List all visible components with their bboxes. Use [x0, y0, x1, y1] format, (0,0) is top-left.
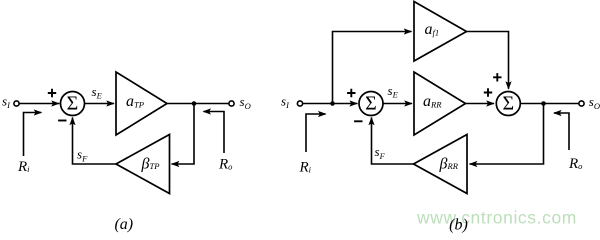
plus sign at summer 2 left (b): [484, 88, 492, 96]
svg-text:sE: sE: [92, 84, 103, 100]
feedback wire to summer (a): [69, 117, 116, 164]
svg-text:sF: sF: [375, 144, 386, 161]
summing junction 2 (b): [496, 92, 520, 116]
svg-text:www.cntronics.com: www.cntronics.com: [416, 208, 577, 228]
label sE (b): [388, 83, 399, 99]
label sF (a): [77, 147, 88, 164]
label sO (a): [240, 94, 251, 111]
label Ri (b): [299, 160, 312, 176]
feedback tap wire (a): [171, 104, 194, 168]
feedback tap wire (b): [469, 104, 544, 168]
summing junction 1 (b): [359, 92, 383, 116]
label sE (a): [92, 84, 103, 100]
input resistance pointer Ri (a): [24, 109, 43, 156]
svg-text:Σ: Σ: [502, 92, 514, 114]
wire amplifier to output (a): [167, 103, 229, 105]
svg-text:sO: sO: [589, 94, 600, 111]
wire to feedforward amplifier (b): [333, 28, 413, 103]
label Ri (a): [17, 159, 30, 175]
caption (b): [449, 217, 468, 234]
caption (a): [114, 216, 133, 233]
input terminal (a): [14, 101, 19, 106]
output terminal (b): [579, 101, 584, 106]
svg-text:(b): (b): [449, 217, 468, 234]
input terminal (b): [297, 101, 302, 106]
output node junction (b): [541, 101, 546, 106]
output resistance pointer Ro (a): [202, 108, 224, 153]
label Ro (a): [218, 157, 232, 173]
feedback network beta_TP: [116, 135, 170, 194]
svg-text:Ro: Ro: [218, 157, 232, 173]
svg-text:Ri: Ri: [299, 160, 312, 176]
amplifier a_TP: [116, 72, 167, 135]
svg-text:sI: sI: [281, 94, 290, 110]
wire input to summer (a): [19, 100, 60, 106]
wire a_RR to summer 2 (b): [466, 100, 495, 106]
label sI (a): [2, 94, 11, 110]
summing junction (a): [61, 92, 85, 116]
wire input to summer 1 (b): [303, 100, 358, 106]
feedback wire to summer 1 (b): [368, 117, 413, 164]
output terminal (a): [229, 101, 234, 106]
amplifier a_RR: [414, 72, 466, 135]
wire summer 2 to output (b): [521, 103, 579, 105]
output node junction (a): [192, 101, 197, 106]
input resistance pointer Ri (b): [306, 111, 327, 152]
wire summer to amplifier (a): [85, 100, 115, 106]
wire summer 1 to amplifier (b): [383, 100, 413, 106]
svg-text:sI: sI: [2, 94, 11, 110]
label sF (b): [375, 144, 386, 161]
output resistance pointer Ro (b): [553, 110, 569, 150]
svg-text:Ro: Ro: [568, 156, 582, 172]
label sO (b): [589, 94, 600, 111]
label sI (b): [281, 94, 290, 110]
minus sign at summer (a): [58, 120, 66, 122]
svg-text:Σ: Σ: [365, 92, 377, 114]
svg-text:Ri: Ri: [17, 159, 30, 175]
svg-text:sO: sO: [240, 94, 251, 111]
minus sign at summer 1 (b): [354, 120, 362, 122]
svg-text:Σ: Σ: [67, 92, 79, 114]
plus sign at summer 1 (b): [347, 89, 355, 97]
plus sign at summer (a): [48, 89, 56, 97]
svg-text:sF: sF: [77, 147, 88, 164]
svg-text:(a): (a): [114, 216, 133, 233]
feedforward amplifier a_f1: [414, 2, 467, 62]
feedback network beta_RR: [414, 135, 468, 194]
watermark www.cntronics.com: [416, 208, 577, 228]
label Ro (b): [568, 156, 582, 172]
wire a_f1 to summer 2 (b): [467, 32, 512, 90]
svg-text:sE: sE: [388, 83, 399, 99]
plus sign at summer 2 top (b): [493, 73, 501, 81]
input node junction (b): [330, 101, 335, 106]
